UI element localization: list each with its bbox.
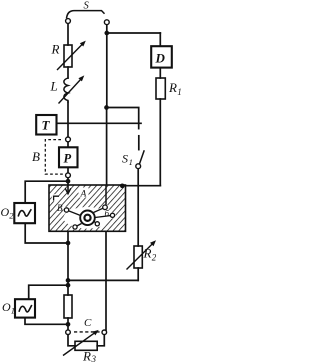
svg-text:б: б (105, 209, 110, 219)
svg-text:O: O (1, 205, 10, 219)
svg-text:R: R (82, 349, 91, 364)
svg-text:A: A (80, 190, 87, 200)
svg-text:P: P (64, 152, 72, 166)
svg-text:C: C (84, 317, 92, 329)
svg-text:R: R (143, 246, 152, 261)
svg-text:S: S (84, 1, 90, 12)
svg-text:R: R (168, 80, 177, 95)
svg-text:1: 1 (177, 87, 181, 97)
svg-text:L: L (50, 79, 58, 94)
svg-text:B: B (57, 203, 63, 213)
svg-text:B: B (32, 149, 40, 164)
svg-text:1: 1 (11, 306, 15, 316)
svg-text:S: S (122, 152, 128, 166)
svg-text:O: O (2, 300, 11, 314)
svg-text:1: 1 (129, 157, 133, 167)
svg-text:D: D (155, 51, 166, 66)
svg-text:T: T (42, 118, 51, 133)
svg-text:3: 3 (91, 354, 97, 364)
svg-text:2: 2 (9, 211, 14, 221)
svg-text:R: R (51, 42, 60, 57)
svg-text:2: 2 (152, 253, 157, 263)
